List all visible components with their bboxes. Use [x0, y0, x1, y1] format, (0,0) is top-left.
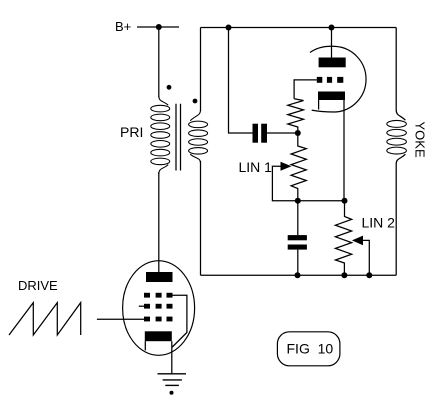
- transformer T1 secondary winding: [189, 110, 208, 163]
- svg-text:LIN 1: LIN 1: [239, 159, 273, 175]
- transformer T1 primary winding PRI: [151, 96, 170, 174]
- svg-text:LIN 2: LIN 2: [362, 215, 396, 231]
- inductor YOKE: [387, 120, 407, 154]
- wire drive to V1 grid: [97, 318, 144, 320]
- wire top rail: [201, 27, 397, 29]
- svg-text:PRI: PRI: [120, 124, 143, 140]
- wire primary bottom to tube V1 plate: [158, 172, 160, 272]
- phase dot secondary: [193, 99, 198, 104]
- FIG 10 box: [277, 332, 340, 366]
- capacitor C2: [297, 201, 299, 235]
- junction dot top rail C1: [226, 25, 232, 31]
- LIN2 wiper arrow: [352, 236, 363, 246]
- tube V2 grid: [317, 77, 344, 83]
- junction dot C2 bottom: [295, 272, 301, 278]
- junction dot LIN1 bottom: [295, 198, 301, 204]
- tube V2 envelope: [310, 46, 366, 112]
- junction B+ node dot: [156, 24, 162, 30]
- wire LIN1 bottom to LIN2 top: [298, 200, 345, 202]
- tube V1 grid 2 stub: [139, 305, 144, 307]
- wire V1 suppressor to cathode: [172, 295, 187, 347]
- junction node A dot: [295, 130, 301, 136]
- tube V1 plate: [146, 272, 173, 282]
- wire C2 bottom: [297, 250, 299, 276]
- potentiometer LIN2: [335, 201, 351, 276]
- wire B+ horizontal stub: [137, 26, 179, 28]
- capacitor C1 coupling: [253, 124, 268, 143]
- junction dot top rail V2 plate: [329, 25, 335, 31]
- wire top rail to coupling cap: [229, 28, 253, 134]
- transformer T1 core: [176, 104, 181, 171]
- ground: [158, 374, 187, 395]
- resistor R1 grid: [288, 99, 304, 133]
- tube V1 cathode: [145, 331, 172, 341]
- svg-text:DRIVE: DRIVE: [18, 278, 58, 293]
- svg-text:FIG 10: FIG 10: [287, 341, 334, 357]
- tube V1 grid 3 row: [144, 317, 173, 322]
- tube V1 grid 1 row: [144, 293, 173, 298]
- tube V1 envelope: [123, 261, 195, 356]
- wire V2 cathode to LIN2 node: [343, 100, 345, 201]
- wire bottom rail: [201, 274, 397, 276]
- LIN1 wiper arrow: [281, 162, 292, 171]
- junction dot LIN2 wiper bottom: [366, 272, 372, 278]
- potentiometer LIN1: [291, 133, 306, 201]
- wire secondary bottom to bottom rail: [200, 161, 202, 275]
- tube V1 grid 2 row: [144, 304, 173, 309]
- wire LIN2 wiper tail: [363, 240, 370, 275]
- wire LIN1 wiper tail: [272, 166, 297, 201]
- phase dot primary: [167, 85, 172, 90]
- svg-text:B+: B+: [115, 19, 131, 34]
- wire secondary top to top rail: [200, 28, 202, 112]
- wire right side down to yoke: [396, 28, 405, 121]
- tube V1 cathode left leg: [144, 341, 146, 350]
- junction dot LIN2 bottom: [341, 272, 347, 278]
- tube V2 cathode: [318, 92, 345, 101]
- tube V2 cathode left leg: [318, 100, 320, 110]
- junction dot LIN2 top: [342, 198, 348, 204]
- wire V2 grid lead: [294, 80, 317, 99]
- svg-text:YOKE: YOKE: [413, 122, 428, 158]
- wire V1 cathode to ground: [171, 341, 173, 374]
- sawtooth waveform: [9, 303, 81, 335]
- wire yoke bottom to bottom rail: [396, 154, 405, 275]
- tube V2 plate: [319, 58, 346, 68]
- wire V2 plate lead: [331, 28, 333, 58]
- wire B+ down to transformer primary: [158, 27, 160, 97]
- wire C1 to node A: [267, 132, 298, 134]
